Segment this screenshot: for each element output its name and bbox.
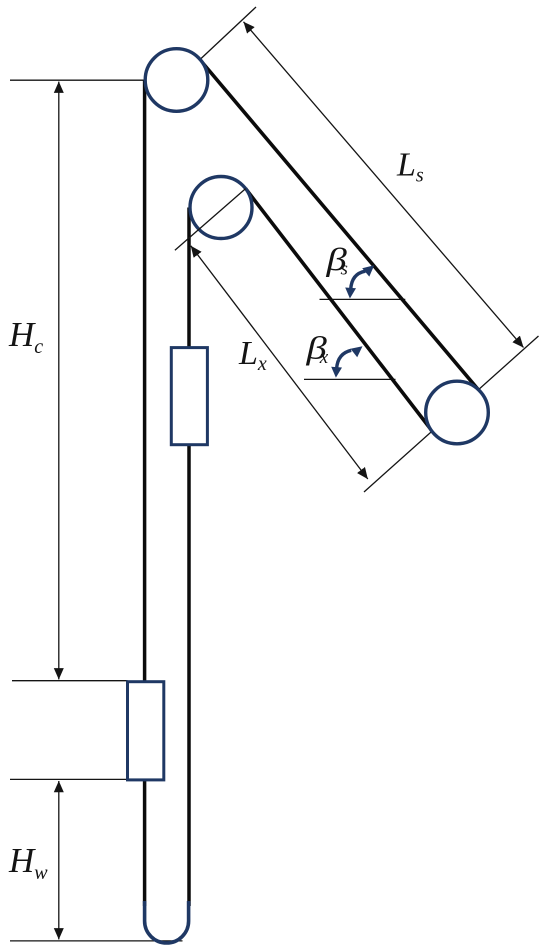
extension line perpendicular through middle pulley — [175, 189, 246, 251]
hook block on left rope — [128, 682, 164, 780]
angle arc beta-x curved double arrow — [331, 346, 362, 377]
dimension Ls diagonal double arrow — [244, 22, 524, 348]
dimension Lx diagonal double arrow — [191, 246, 368, 479]
horizontal reference line for angle beta-s — [320, 298, 406, 300]
extension line horizontal at hook block bottom — [10, 778, 128, 780]
svg-text:Ls: Ls — [396, 147, 424, 187]
svg-text:x: x — [319, 347, 329, 368]
svg-text:Hc: Hc — [8, 315, 43, 358]
pulley middle sheave — [190, 177, 252, 239]
horizontal reference line for angle beta-x — [304, 378, 396, 380]
pulley lower-right (boom tip sheave) — [426, 381, 489, 444]
angle arc beta-s curved double arrow — [345, 265, 374, 298]
wire hoist rope right vertical — [187, 208, 191, 907]
dimension Hw vertical double arrow — [58, 781, 60, 939]
extension line horizontal at hook block top — [12, 680, 128, 682]
extension line perpendicular through lower-right pulley — [364, 336, 539, 492]
extension line top-left horizontal at crane head level — [10, 79, 144, 81]
svg-text:Hw: Hw — [8, 841, 48, 884]
counterweight block on right rope — [171, 348, 207, 445]
wire luffing rope diagonal lower — [246, 189, 433, 432]
dimension Hc vertical double arrow — [58, 82, 60, 680]
extension line horizontal at ground/rope end level — [10, 940, 183, 942]
svg-text:s: s — [341, 259, 348, 280]
pulley top (crane head sheave) — [145, 49, 208, 112]
wire boom suspension rope diagonal upper — [200, 60, 481, 393]
wire hoist rope left vertical — [143, 80, 147, 906]
extension line perpendicular at top pulley tangent — [200, 7, 256, 60]
rope end U loop at bottom — [145, 901, 189, 943]
